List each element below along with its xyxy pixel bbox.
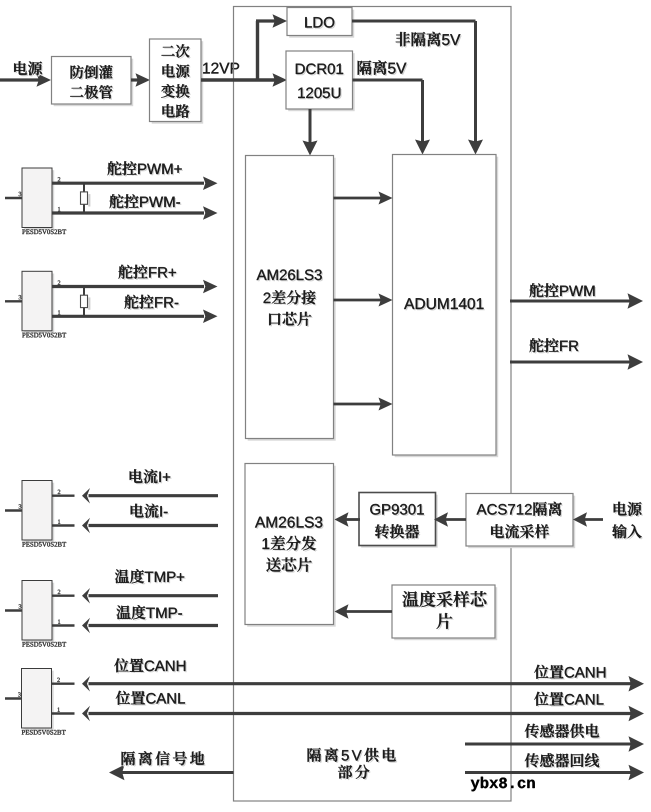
wire 12VP branch up to LDO — [256, 21, 259, 82]
resistor termination R1 — [83, 183, 85, 192]
pin 3 lead — [5, 197, 22, 199]
label 舵控FR out — [531, 340, 580, 354]
wire LDO output non-isolated 5V to ADUM1401 — [352, 20, 476, 23]
pin 3 lead — [5, 697, 22, 699]
wire AM26LS32 to ADUM1401 ch1 — [334, 197, 383, 200]
signal labels — [120, 266, 178, 280]
block ADUM1401 digital isolator — [395, 157, 499, 458]
block DCR01 1205U isolated DC-DC — [288, 53, 355, 111]
pin 3 lead — [5, 300, 22, 302]
pin 3 lead — [5, 609, 22, 611]
label 舵控PWM out — [531, 285, 596, 299]
block secondary power conversion 二次电源变换电路 — [152, 41, 204, 124]
signal labels — [116, 571, 185, 585]
big isolated-section box outline — [234, 7, 512, 802]
pin 1 wire — [52, 182, 204, 185]
label 隔离5V net — [359, 62, 408, 76]
block AM26LS31 differential driver chip — [247, 466, 336, 627]
block ACS712 isolated current sampling — [468, 496, 575, 549]
label 位置CANL right — [536, 693, 605, 707]
pin 1 wire — [52, 495, 75, 497]
label PESD5V0S2BT U5 — [22, 730, 66, 735]
wire temp chip to AM26LS31 — [345, 610, 392, 613]
resistor termination R2 — [83, 287, 85, 296]
component PESD5V0S2BT U1 body — [24, 170, 54, 230]
wire output 舵控PWM — [510, 300, 632, 303]
wire sensor supply 传感器供电 — [465, 743, 633, 746]
pin 1 wire — [52, 285, 204, 288]
wire output 舵控FR — [510, 361, 632, 364]
component PESD5V0S2BT U5 body — [24, 671, 54, 731]
label 隔离5V供电部分 section — [309, 749, 397, 763]
label PESD5V0S2BT U1 — [22, 230, 66, 235]
wire ACS712 to GP9301 — [445, 518, 466, 521]
signal labels — [131, 471, 172, 485]
pin 1 wire — [52, 595, 75, 597]
signal labels — [109, 163, 183, 177]
wire AM26LS32 to ADUM1401 ch2 — [334, 299, 383, 302]
wire diode to converter — [131, 78, 141, 81]
block AM26LS32 differential interface chip — [248, 158, 336, 441]
component PESD5V0S2BT U2 body — [24, 274, 54, 334]
block temperature sampling chip 温度采样芯片 — [394, 587, 497, 640]
block LDO regulator — [289, 10, 354, 38]
label 位置CANH right — [536, 666, 607, 680]
label PESD5V0S2BT U3 — [22, 542, 66, 547]
pin 1 wire — [52, 683, 75, 685]
wire power input — [0, 78, 40, 81]
pin 3 lead — [5, 509, 22, 511]
wire 12VP rail into DCR01 — [201, 78, 276, 81]
watermark ybx8.cn — [471, 777, 535, 791]
wire DCR01 down to AM26LS32 — [309, 109, 312, 145]
wire DCR01 output isolated 5V to ADUM1401 — [353, 79, 423, 82]
component PESD5V0S2BT U3 body — [24, 483, 54, 543]
block anti-backflow diode 防倒灌二极管 — [54, 59, 134, 106]
label 12VP net — [203, 63, 239, 74]
component PESD5V0S2BT U4 body — [24, 583, 54, 643]
wire GP9301 to AM26LS31 — [345, 518, 360, 521]
label 电源输入 right — [615, 503, 643, 517]
wire sensor return 传感器回线 — [465, 771, 633, 774]
wire isolated signal ground 隔离信号地 — [120, 771, 234, 774]
label PESD5V0S2BT U4 — [22, 642, 66, 647]
label 非隔离5V net — [397, 33, 462, 47]
label 电源 (power in) — [16, 63, 44, 77]
wire power-in to ACS712 — [584, 518, 603, 521]
wire AM26LS32 to ADUM1401 ch3 — [334, 403, 383, 406]
label PESD5V0S2BT U2 — [22, 333, 66, 338]
signal labels — [116, 660, 187, 674]
block GP9301 converter — [361, 495, 438, 548]
